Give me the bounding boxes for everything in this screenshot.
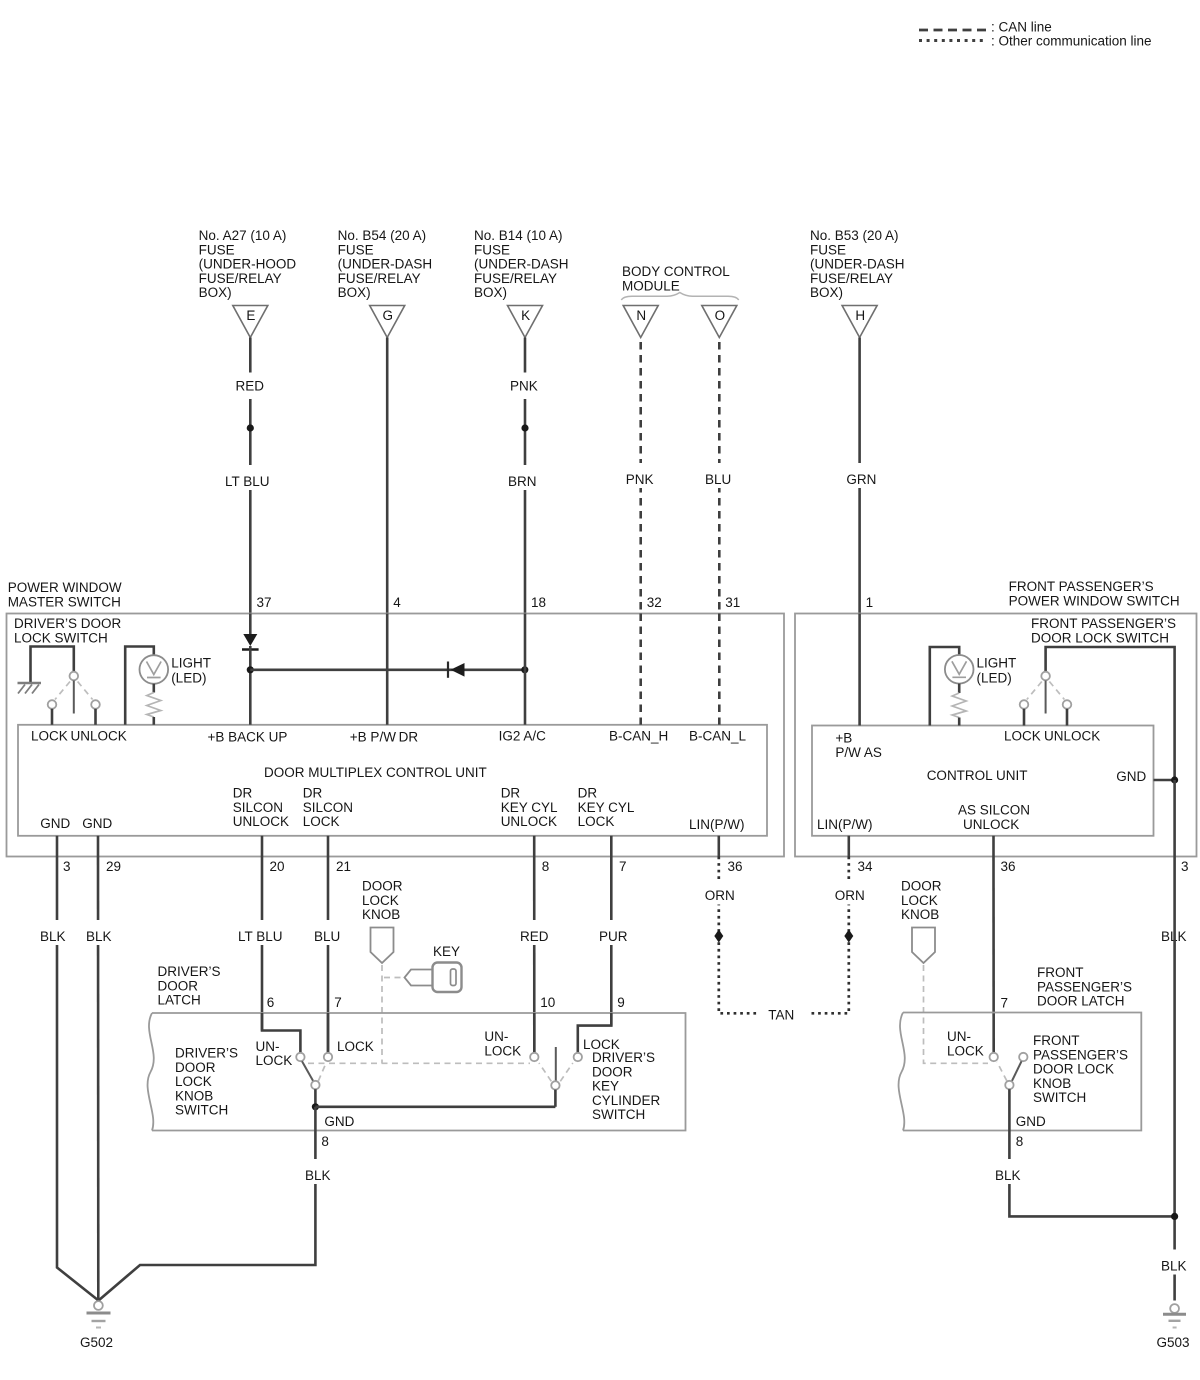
passenger lock switch LOCK contact xyxy=(1020,700,1029,709)
wire pin8 RED down xyxy=(533,857,536,1053)
knob switch throw dash to lock xyxy=(318,1062,326,1081)
wire pin29 BLK down xyxy=(97,857,100,1301)
diamond on right LIN wire xyxy=(844,930,853,943)
svg-text:GRN: GRN xyxy=(846,472,876,487)
wire pin6 jog to unlock contact xyxy=(262,1013,300,1053)
passenger lock switch throw dashes xyxy=(1027,682,1065,700)
junction under diode xyxy=(247,666,254,673)
svg-text:FUSE: FUSE xyxy=(474,242,510,257)
svg-text:KEY: KEY xyxy=(592,1079,619,1094)
driver latch torn edge xyxy=(148,1013,154,1131)
svg-text:GND: GND xyxy=(40,816,70,831)
svg-text:BLK: BLK xyxy=(86,929,112,944)
key symbol xyxy=(405,963,462,993)
svg-text:FRONT: FRONT xyxy=(1033,1033,1080,1048)
svg-text:GND: GND xyxy=(82,816,112,831)
label GRN xyxy=(842,463,878,488)
svg-text:RED: RED xyxy=(236,379,265,394)
passenger LED label xyxy=(977,656,1017,686)
svg-text:No. B54 (20 A): No. B54 (20 A) xyxy=(338,228,427,243)
wire fuse H to pin 1 xyxy=(858,338,861,614)
label RED xyxy=(232,373,265,400)
svg-text:FUSE: FUSE xyxy=(199,242,235,257)
passenger lock switch blade xyxy=(1045,681,1047,714)
svg-text:GND: GND xyxy=(1016,1114,1046,1129)
driver lock switch bracket wire xyxy=(31,647,74,684)
svg-text:G503: G503 xyxy=(1157,1335,1190,1350)
passenger door lock knob symbol xyxy=(912,928,935,964)
dotted LIN wire pin36 left xyxy=(719,857,757,1014)
driver LED label xyxy=(171,656,211,686)
wire UNLOCK contact to unit xyxy=(94,709,97,725)
ground symbol G503 xyxy=(1163,1304,1186,1327)
svg-text:POWER WINDOW SWITCH: POWER WINDOW SWITCH xyxy=(1009,593,1180,608)
svg-text:BLK: BLK xyxy=(40,929,66,944)
svg-text:POWER WINDOW: POWER WINDOW xyxy=(8,580,122,595)
svg-text:KNOB: KNOB xyxy=(1033,1076,1071,1091)
junction on wire 18 xyxy=(521,424,528,431)
driver door lock knob label xyxy=(362,879,403,923)
svg-text:KNOB: KNOB xyxy=(175,1088,213,1103)
svg-text:PASSENGER’S: PASSENGER’S xyxy=(1033,1047,1128,1062)
svg-text:B-CAN_L: B-CAN_L xyxy=(689,729,747,744)
wire pin7 to lock contact xyxy=(327,1013,330,1053)
passenger LED lamp circle xyxy=(945,655,974,684)
svg-text:DOOR LATCH: DOOR LATCH xyxy=(1037,994,1125,1009)
svg-text:37: 37 xyxy=(257,595,272,610)
ground symbol G502 xyxy=(87,1301,111,1327)
driver knob linkage dashed vertical xyxy=(381,965,383,1063)
passenger resistor to unit stub xyxy=(958,718,961,726)
svg-text:DOOR: DOOR xyxy=(175,1060,216,1075)
fuse B54 label xyxy=(338,228,433,300)
wire 18 inside box xyxy=(524,614,527,725)
passenger latch box xyxy=(903,1013,1141,1131)
wire key cyl common down xyxy=(554,1090,557,1107)
BLK label right rail lower xyxy=(1157,1250,1192,1275)
svg-text:CYLINDER: CYLINDER xyxy=(592,1093,661,1108)
front passenger's door lock knob switch label xyxy=(1033,1033,1128,1105)
svg-text:N: N xyxy=(636,308,646,323)
driver resistor to unit stub xyxy=(153,717,156,725)
svg-text:DR: DR xyxy=(501,786,521,801)
label BLK pin3 xyxy=(36,920,72,945)
pin 20 stub xyxy=(261,836,264,857)
body control module bracket xyxy=(621,293,738,301)
fuse K symbol xyxy=(508,306,543,338)
driver's door latch label xyxy=(158,964,221,1008)
svg-text:3: 3 xyxy=(1181,859,1189,874)
svg-text:G502: G502 xyxy=(80,1335,113,1350)
svg-text:32: 32 xyxy=(647,595,662,610)
diode D1 down xyxy=(242,634,259,650)
svg-text:BLK: BLK xyxy=(305,1168,331,1183)
svg-text:KEY: KEY xyxy=(433,944,460,959)
wire pin3 BLK down-left xyxy=(57,857,99,1301)
svg-text:KEY CYL: KEY CYL xyxy=(578,800,635,815)
svg-text:MODULE: MODULE xyxy=(622,278,680,293)
DR SILCON UNLOCK pin label xyxy=(233,786,289,830)
svg-text:No. B14 (10 A): No. B14 (10 A) xyxy=(474,228,563,243)
front passenger door lock switch label xyxy=(1031,616,1176,645)
svg-text:20: 20 xyxy=(270,859,285,874)
passenger lock switch bracket wire xyxy=(1046,647,1175,780)
svg-text:KNOB: KNOB xyxy=(362,907,400,922)
pin 8 stub xyxy=(533,836,536,857)
label PNK fuse K xyxy=(506,373,541,400)
svg-text:LIGHT: LIGHT xyxy=(977,656,1017,671)
wire right rail down xyxy=(1173,857,1176,1301)
svg-text:BODY CONTROL: BODY CONTROL xyxy=(622,264,730,279)
key cyl blade vertical xyxy=(555,1047,557,1081)
svg-text:BOX): BOX) xyxy=(810,285,843,300)
svg-text:K: K xyxy=(521,308,530,323)
power window master switch label xyxy=(8,580,122,609)
svg-text:36: 36 xyxy=(1001,859,1016,874)
svg-text:: CAN line: : CAN line xyxy=(991,20,1052,35)
svg-text:8: 8 xyxy=(1016,1134,1024,1149)
key cyl UNLOCK contact xyxy=(530,1053,538,1061)
svg-text:GND: GND xyxy=(1116,769,1146,784)
svg-text:SILCON: SILCON xyxy=(233,800,283,815)
passenger knob switch throw dash xyxy=(997,1062,1007,1081)
svg-text:(UNDER-HOOD: (UNDER-HOOD xyxy=(199,257,297,272)
wire GND junction to pin 8 xyxy=(314,1107,317,1131)
pin 3 stub left xyxy=(56,836,59,857)
passenger latch torn edge xyxy=(899,1013,905,1131)
svg-text:DR: DR xyxy=(233,786,253,801)
svg-text:BLK: BLK xyxy=(995,1168,1021,1183)
wire fuse K to pin 18 xyxy=(524,338,527,614)
label PNK BCM xyxy=(622,463,658,488)
svg-text:7: 7 xyxy=(619,859,627,874)
label BLK pin29 xyxy=(82,920,118,945)
legend CAN line sample xyxy=(919,29,986,32)
svg-text:LOCK: LOCK xyxy=(578,814,615,829)
key cyl common contact xyxy=(551,1081,559,1089)
door multiplex control unit inner box xyxy=(18,725,767,836)
fuse B14 label xyxy=(474,228,569,300)
wire pin21 BLU down xyxy=(327,857,330,1053)
svg-text:BRN: BRN xyxy=(508,474,537,489)
DR KEY CYL LOCK pin label xyxy=(578,786,635,830)
driver door lock knob symbol xyxy=(371,928,394,964)
driver resistor xyxy=(147,693,161,718)
svg-text:: Other communication line: : Other communication line xyxy=(991,34,1152,49)
svg-text:DOOR LOCK: DOOR LOCK xyxy=(1033,1062,1114,1077)
pin 36 stub left xyxy=(717,836,720,857)
mech dashed link knob-key xyxy=(308,1062,530,1064)
svg-text:(UNDER-DASH: (UNDER-DASH xyxy=(338,257,433,272)
svg-text:RED: RED xyxy=(520,929,549,944)
svg-text:SWITCH: SWITCH xyxy=(175,1103,228,1118)
svg-text:PASSENGER’S: PASSENGER’S xyxy=(1037,979,1132,994)
svg-text:IG2 A/C: IG2 A/C xyxy=(499,729,547,744)
driver lock switch UNLOCK contact xyxy=(91,700,100,709)
key cyl LOCK contact xyxy=(574,1053,582,1061)
passenger LED chevron xyxy=(952,661,967,677)
svg-text:LOCK: LOCK xyxy=(901,893,938,908)
label BRN xyxy=(504,465,541,490)
svg-text:(UNDER-DASH: (UNDER-DASH xyxy=(474,257,569,272)
wire fuse E to pin 37 xyxy=(249,338,252,614)
key linkage dash xyxy=(384,977,402,979)
svg-text:SWITCH: SWITCH xyxy=(1033,1090,1086,1105)
wire 4 inside box xyxy=(386,614,389,725)
svg-text:FUSE: FUSE xyxy=(810,242,846,257)
svg-text:FRONT: FRONT xyxy=(1037,965,1084,980)
svg-text:FUSE/RELAY: FUSE/RELAY xyxy=(810,271,893,286)
+B P/W AS pin label xyxy=(835,731,882,761)
svg-text:DOOR MULTIPLEX CONTROL UNIT: DOOR MULTIPLEX CONTROL UNIT xyxy=(264,765,487,780)
svg-text:LOCK: LOCK xyxy=(947,1043,984,1058)
junction on wire 37 xyxy=(247,424,254,431)
svg-text:UNLOCK: UNLOCK xyxy=(963,817,1019,832)
driver LED lamp bracket wire xyxy=(125,647,154,725)
chassis ground driver lock switch xyxy=(18,683,42,694)
wire pin9 jog to key lock contact xyxy=(578,1013,612,1053)
driver lock switch pivot contact xyxy=(70,672,79,681)
junction GND right rail xyxy=(1171,776,1178,783)
wire 32 inside box xyxy=(639,614,642,725)
wire passenger common to pin 8 xyxy=(1008,1089,1011,1130)
wire pin20 LT BLU down xyxy=(261,857,264,1031)
wire 31 inside box xyxy=(718,614,721,725)
svg-text:3: 3 xyxy=(63,859,71,874)
svg-text:CONTROL UNIT: CONTROL UNIT xyxy=(927,768,1028,783)
passenger knob linkage dashed xyxy=(924,965,989,1063)
wire passenger UNLOCK contact to unit xyxy=(1066,709,1069,726)
svg-text:DRIVER’S: DRIVER’S xyxy=(592,1050,655,1065)
svg-text:UN-: UN- xyxy=(256,1039,280,1054)
junction on IG2 wire xyxy=(521,666,528,673)
svg-text:No. A27 (10 A): No. A27 (10 A) xyxy=(199,228,287,243)
passenger lock switch pivot contact xyxy=(1041,672,1050,681)
svg-text:(UNDER-DASH: (UNDER-DASH xyxy=(810,257,905,272)
svg-text:+B P/W DR: +B P/W DR xyxy=(350,730,419,745)
svg-text:G: G xyxy=(383,308,394,323)
BCM terminal O xyxy=(702,306,737,338)
passenger door lock knob label xyxy=(901,879,942,923)
svg-text:1: 1 xyxy=(866,595,874,610)
fuse E symbol xyxy=(233,306,268,338)
svg-text:LOCK: LOCK xyxy=(303,814,340,829)
svg-text:LIN(P/W): LIN(P/W) xyxy=(817,817,873,832)
svg-text:LOCK: LOCK xyxy=(1004,729,1041,744)
svg-text:BLU: BLU xyxy=(705,472,731,487)
svg-text:E: E xyxy=(246,308,255,323)
driver LED lamp circle xyxy=(140,655,169,684)
passenger knob switch UN-LOCK label xyxy=(947,1029,984,1058)
svg-text:DOOR: DOOR xyxy=(592,1064,633,1079)
svg-text:SILCON: SILCON xyxy=(303,800,353,815)
svg-text:P/W AS: P/W AS xyxy=(835,745,882,760)
DR SILCON LOCK pin label xyxy=(303,786,353,830)
svg-text:LOCK: LOCK xyxy=(337,1039,374,1054)
svg-text:36: 36 xyxy=(728,859,743,874)
svg-text:KNOB: KNOB xyxy=(901,907,939,922)
svg-text:DRIVER’S: DRIVER’S xyxy=(158,964,221,979)
svg-text:(LED): (LED) xyxy=(171,671,206,686)
svg-text:34: 34 xyxy=(858,859,874,874)
pin 34 stub xyxy=(847,836,850,857)
svg-text:LOCK: LOCK xyxy=(256,1053,293,1068)
BLK label passenger gnd xyxy=(991,1159,1026,1184)
svg-text:GND: GND xyxy=(324,1114,354,1129)
driver's door latch box xyxy=(152,1013,686,1131)
fuse G symbol xyxy=(370,306,405,338)
wire key cyl common to GND junction xyxy=(315,1106,555,1109)
body control module label xyxy=(622,264,730,293)
svg-text:FUSE/RELAY: FUSE/RELAY xyxy=(474,271,557,286)
knob switch UN-LOCK label xyxy=(256,1039,293,1068)
svg-text:29: 29 xyxy=(106,859,121,874)
svg-text:9: 9 xyxy=(617,995,625,1010)
front passenger's door latch label xyxy=(1037,965,1132,1009)
svg-text:+B: +B xyxy=(835,731,852,746)
svg-text:FRONT PASSENGER’S: FRONT PASSENGER’S xyxy=(1009,579,1154,594)
dotted LIN wire pin34 right xyxy=(809,857,849,1014)
svg-text:18: 18 xyxy=(531,595,546,610)
svg-text:BLK: BLK xyxy=(1161,1259,1187,1274)
wire passenger pin8 to right rail xyxy=(1009,1131,1174,1217)
wire passenger LOCK contact to unit xyxy=(1023,709,1026,726)
svg-text:BOX): BOX) xyxy=(474,285,507,300)
svg-text:LATCH: LATCH xyxy=(158,993,201,1008)
svg-text:LIGHT: LIGHT xyxy=(171,656,211,671)
svg-text:DOOR: DOOR xyxy=(158,978,199,993)
svg-text:BOX): BOX) xyxy=(338,285,371,300)
svg-text:MASTER SWITCH: MASTER SWITCH xyxy=(8,594,121,609)
svg-text:DOOR: DOOR xyxy=(362,879,403,894)
driver lock switch throw dashes xyxy=(55,682,93,700)
AS SILCON UNLOCK pin label xyxy=(958,803,1030,832)
driver LED chevron xyxy=(147,662,162,678)
diamond on left LIN wire xyxy=(714,930,723,943)
pin 21 stub xyxy=(327,836,330,857)
label BLK right rail upper xyxy=(1157,920,1192,945)
svg-text:UNLOCK: UNLOCK xyxy=(1044,729,1100,744)
label LT BLU xyxy=(221,465,278,490)
horizontal wire junction to IG2 xyxy=(250,668,525,671)
GND wire to right rail xyxy=(1154,779,1175,782)
front passenger outer box xyxy=(795,614,1197,857)
svg-text:7: 7 xyxy=(334,995,342,1010)
svg-text:UNLOCK: UNLOCK xyxy=(233,814,289,829)
svg-text:8: 8 xyxy=(321,1134,329,1149)
label PUR wire7 xyxy=(595,920,629,945)
wire pin10 to key unlock contact xyxy=(533,1013,536,1053)
driver lock switch blade xyxy=(73,681,75,714)
svg-text:DR: DR xyxy=(578,786,598,801)
label ORN right xyxy=(830,880,869,905)
svg-text:10: 10 xyxy=(540,995,555,1010)
svg-text:LOCK: LOCK xyxy=(175,1074,212,1089)
svg-text:PNK: PNK xyxy=(510,379,538,394)
BLK label driver latch gnd xyxy=(301,1159,336,1184)
right rail to box bottom xyxy=(1173,780,1176,857)
svg-text:LOCK: LOCK xyxy=(484,1043,521,1058)
knob switch common contact xyxy=(311,1081,319,1089)
label RED wire8 xyxy=(516,920,551,945)
svg-text:AS SILCON: AS SILCON xyxy=(958,803,1030,818)
label ORN left xyxy=(700,880,739,905)
fuse B53 label xyxy=(810,228,905,300)
svg-text:No. B53 (20 A): No. B53 (20 A) xyxy=(810,228,899,243)
wire diode to +B BACK UP pin xyxy=(249,646,252,725)
passenger resistor xyxy=(952,693,966,718)
passenger LED to resistor stub xyxy=(958,684,961,693)
key cyl UN-LOCK label xyxy=(484,1029,521,1058)
svg-text:BOX): BOX) xyxy=(199,285,232,300)
svg-text:FUSE: FUSE xyxy=(338,242,374,257)
svg-text:ORN: ORN xyxy=(835,888,865,903)
svg-text:(LED): (LED) xyxy=(977,671,1012,686)
wire BCM N to pin 32 CAN xyxy=(639,342,642,614)
svg-text:4: 4 xyxy=(393,595,401,610)
wire pin36 YEL down xyxy=(992,857,995,1053)
wire pin7 PUR down xyxy=(610,857,613,1026)
wire common to GND junction xyxy=(314,1089,317,1107)
driver's door lock switch label xyxy=(14,616,122,645)
knob switch LOCK contact xyxy=(324,1053,332,1061)
wire fuse G to pin 4 xyxy=(386,338,389,614)
front passenger control unit inner box xyxy=(812,726,1154,836)
svg-text:LT BLU: LT BLU xyxy=(225,474,270,489)
svg-text:UN-: UN- xyxy=(947,1029,971,1044)
GND junction dot driver latch xyxy=(312,1103,319,1110)
svg-text:FUSE/RELAY: FUSE/RELAY xyxy=(199,271,282,286)
svg-text:DR: DR xyxy=(303,786,323,801)
svg-text:DOOR: DOOR xyxy=(901,879,942,894)
passenger knob switch right contact xyxy=(1019,1053,1027,1061)
passenger knob switch common contact xyxy=(1005,1081,1013,1089)
svg-text:UNLOCK: UNLOCK xyxy=(501,814,557,829)
fuse H symbol xyxy=(842,306,877,338)
svg-text:LOCK: LOCK xyxy=(362,893,399,908)
BCM terminal N xyxy=(623,306,658,338)
svg-text:21: 21 xyxy=(336,859,351,874)
svg-text:DRIVER’S: DRIVER’S xyxy=(175,1046,238,1061)
driver LED to resistor stub xyxy=(153,684,156,693)
svg-text:7: 7 xyxy=(1001,996,1009,1011)
DR KEY CYL UNLOCK pin label xyxy=(501,786,558,830)
svg-text:FRONT PASSENGER’S: FRONT PASSENGER’S xyxy=(1031,616,1176,631)
svg-text:PUR: PUR xyxy=(599,929,628,944)
fuse A27 label xyxy=(199,228,297,300)
key cyl throw dashes xyxy=(539,1063,573,1081)
front passenger power window switch label xyxy=(1009,579,1180,608)
passenger lock switch UNLOCK contact xyxy=(1063,700,1072,709)
knob switch UNLOCK contact xyxy=(296,1053,304,1061)
label BLU wire21 xyxy=(310,920,345,945)
svg-text:O: O xyxy=(715,308,726,323)
svg-text:LOCK SWITCH: LOCK SWITCH xyxy=(14,630,108,645)
driver lock switch LOCK contact xyxy=(48,700,57,709)
svg-text:FUSE/RELAY: FUSE/RELAY xyxy=(338,271,421,286)
wire driver latch GND to ground run xyxy=(99,1131,316,1301)
svg-text:PNK: PNK xyxy=(626,472,654,487)
svg-text:8: 8 xyxy=(542,859,550,874)
passenger LED bracket wire xyxy=(930,647,959,726)
driver's door key cylinder switch label xyxy=(592,1050,661,1122)
diode D2 pointing left xyxy=(448,662,465,678)
wire 1 inside box xyxy=(858,614,861,726)
driver's door lock knob switch label xyxy=(175,1046,238,1118)
wire LOCK contact to unit xyxy=(51,709,54,725)
svg-text:H: H xyxy=(855,308,865,323)
svg-text:KEY CYL: KEY CYL xyxy=(501,800,558,815)
